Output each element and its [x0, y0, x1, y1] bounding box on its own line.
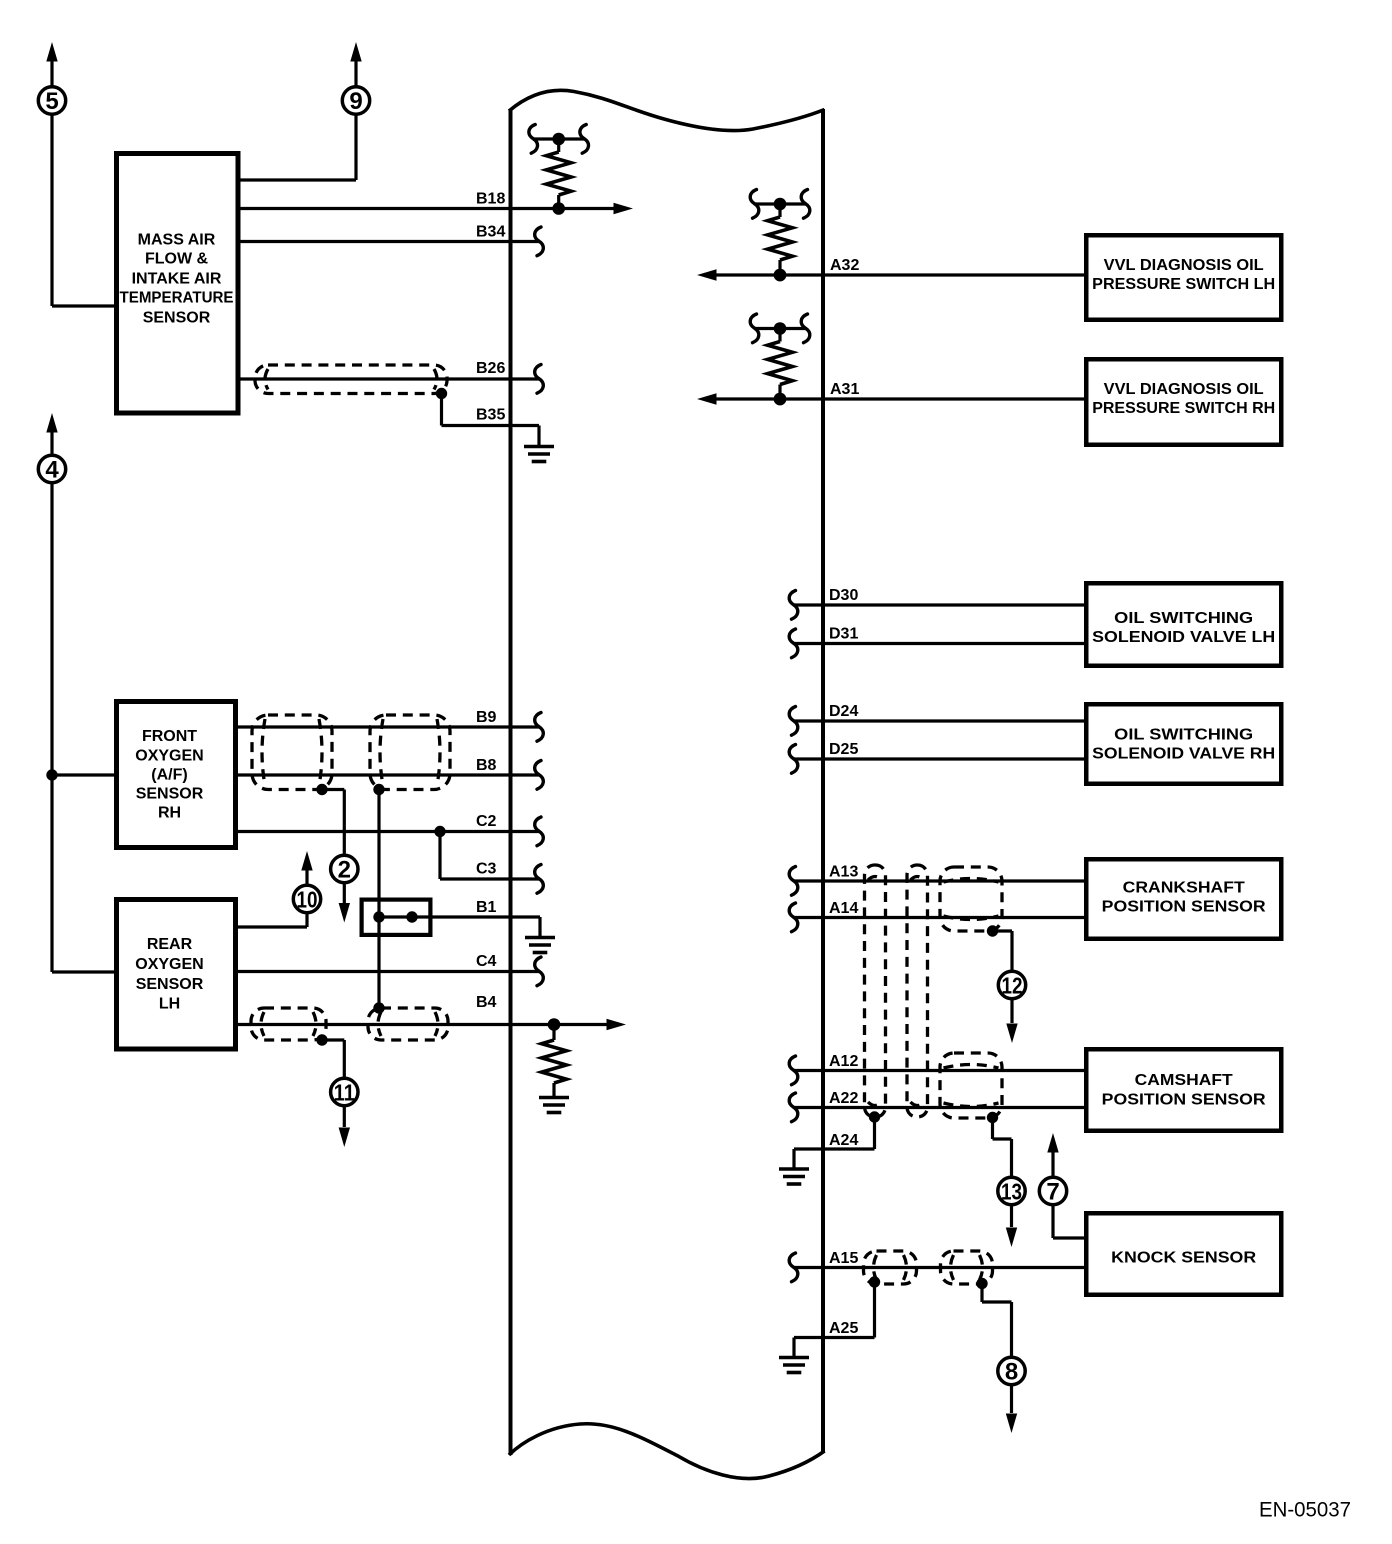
- shield drain junction dot right: [373, 784, 384, 795]
- connector page ref circle 9: [342, 87, 369, 115]
- shield drain junction dot on A15 shield 2: [976, 1278, 987, 1289]
- svg-text:B8: B8: [476, 757, 497, 774]
- tall shield 2 over A13/A14 and A12/A22: [907, 865, 928, 1117]
- svg-text:A14: A14: [829, 900, 858, 917]
- shield drain junction dot on A15 shield 1: [869, 1276, 880, 1287]
- svg-text:OIL SWITCHING: OIL SWITCHING: [1114, 727, 1253, 744]
- svg-text:POSITION SENSOR: POSITION SENSOR: [1102, 1092, 1266, 1109]
- shield around B26: [255, 365, 447, 394]
- shield around A12/A22 right: [940, 1053, 1002, 1118]
- svg-text:B18: B18: [476, 191, 505, 208]
- svg-text:FRONT: FRONT: [142, 728, 197, 745]
- crankshaft position sensor box: [1086, 859, 1281, 939]
- joint connector box on B1: [362, 900, 431, 935]
- wire C4: [236, 957, 543, 986]
- connector page ref circle 2: [331, 855, 358, 883]
- svg-text:D25: D25: [829, 741, 858, 758]
- arrow down from circle 13: [1006, 1206, 1017, 1248]
- svg-text:5: 5: [45, 88, 58, 115]
- svg-text:D31: D31: [829, 626, 858, 643]
- svg-text:A22: A22: [829, 1090, 858, 1107]
- ground inside ECM for B1: [525, 938, 555, 953]
- shield drain wire to circle 8: [982, 1284, 1012, 1357]
- svg-text:VVL DIAGNOSIS OIL: VVL DIAGNOSIS OIL: [1104, 257, 1264, 274]
- wire B9: [236, 713, 543, 742]
- svg-text:D30: D30: [829, 587, 858, 604]
- connector page ref circle 8: [998, 1357, 1025, 1385]
- svg-text:B34: B34: [476, 224, 505, 241]
- pull-up resistor inside ECM on B18: [529, 125, 589, 215]
- svg-text:B26: B26: [476, 360, 505, 377]
- svg-text:OIL SWITCHING: OIL SWITCHING: [1114, 610, 1253, 627]
- wire B1 to ground: [373, 911, 540, 937]
- svg-text:SOLENOID VALVE LH: SOLENOID VALVE LH: [1092, 629, 1275, 646]
- wire A24 to ground: [794, 1117, 875, 1169]
- connector page ref circle 5: [38, 87, 65, 115]
- svg-text:SENSOR: SENSOR: [136, 786, 204, 803]
- connector page ref circle 4: [38, 455, 65, 483]
- shield drain junction on B26 shield: [436, 388, 447, 399]
- svg-text:11: 11: [334, 1080, 355, 1106]
- wire D25: [789, 745, 1084, 774]
- svg-text:MASS AIR: MASS AIR: [138, 232, 216, 249]
- svg-text:KNOCK SENSOR: KNOCK SENSOR: [1111, 1250, 1256, 1267]
- wire C2: [236, 817, 543, 846]
- svg-text:9: 9: [349, 88, 362, 115]
- arrow down from circle 12: [1006, 1000, 1017, 1044]
- svg-text:2: 2: [338, 857, 351, 884]
- wire C3: [440, 832, 543, 894]
- svg-text:FLOW &: FLOW &: [145, 250, 209, 267]
- arrow up (to page ref 9): [350, 42, 361, 86]
- shield drain wire to circle 2: [322, 790, 344, 855]
- svg-text:A12: A12: [829, 1053, 858, 1070]
- svg-text:REAR: REAR: [147, 936, 193, 953]
- shield drain wire to circle 12: [993, 931, 1013, 971]
- wire D31: [789, 629, 1084, 658]
- svg-text:C3: C3: [476, 861, 497, 878]
- ECM block wavy top edge: [509, 90, 825, 130]
- shield 1 around B9/B8: [252, 715, 332, 790]
- svg-text:POSITION SENSOR: POSITION SENSOR: [1102, 899, 1266, 916]
- shield drain junction dot left: [316, 784, 327, 795]
- VVL diagnosis oil pressure switch RH box: [1086, 359, 1281, 445]
- connector page ref circle 7: [1039, 1177, 1066, 1205]
- svg-text:B1: B1: [476, 899, 497, 916]
- svg-text:PRESSURE SWITCH RH: PRESSURE SWITCH RH: [1092, 400, 1275, 417]
- ECM block wavy bottom edge: [509, 1424, 825, 1479]
- ground outside ECM for A24: [779, 1169, 809, 1184]
- ECM connector block left edge: [509, 109, 513, 1455]
- pull-up resistor inside ECM on A31: [750, 314, 810, 405]
- wire B8: [236, 761, 543, 790]
- shield 1 around A15: [864, 1251, 917, 1284]
- svg-text:PRESSURE SWITCH LH: PRESSURE SWITCH LH: [1092, 276, 1275, 293]
- wire A13: [789, 867, 1084, 896]
- shield drain junction dot on A12/A22 shield: [987, 1112, 998, 1123]
- oil switching solenoid valve LH box: [1086, 583, 1281, 666]
- svg-text:A32: A32: [830, 257, 859, 274]
- shield 2 around B4: [368, 1008, 448, 1040]
- wire from circle 4 down to oxygen sensors: [46, 484, 116, 972]
- svg-text:12: 12: [1002, 973, 1023, 999]
- wire from mass air flow sensor to circle 9: [236, 115, 356, 180]
- connector page ref circle 13: [998, 1177, 1025, 1204]
- svg-text:B9: B9: [476, 709, 497, 726]
- wire A31 with arrow: [697, 393, 1084, 406]
- svg-text:B35: B35: [476, 407, 505, 424]
- arrow up to knock sensor (page ref 7): [1047, 1133, 1058, 1177]
- shield 1 around B4: [251, 1008, 326, 1040]
- front oxygen (A/F) sensor RH box: [117, 702, 236, 848]
- svg-text:OXYGEN: OXYGEN: [135, 956, 203, 973]
- camshaft position sensor box: [1086, 1049, 1281, 1131]
- svg-text:C4: C4: [476, 953, 497, 970]
- ground outside ECM for A25: [779, 1358, 809, 1373]
- svg-text:10: 10: [297, 887, 318, 913]
- connector page ref circle 12: [998, 971, 1025, 998]
- svg-text:OXYGEN: OXYGEN: [135, 747, 203, 764]
- wire A15: [789, 1253, 1084, 1282]
- svg-text:SOLENOID VALVE RH: SOLENOID VALVE RH: [1092, 746, 1275, 763]
- VVL diagnosis oil pressure switch LH box: [1086, 235, 1281, 320]
- svg-text:A24: A24: [829, 1132, 858, 1149]
- svg-text:EN-05037: EN-05037: [1259, 1498, 1351, 1522]
- ground under B4 resistor: [539, 1098, 569, 1113]
- wire B4: [236, 1018, 626, 1031]
- shield 2 around B9/B8: [370, 715, 450, 790]
- arrow down from circle 11: [339, 1107, 350, 1148]
- shield junction dot on B4 shield 2 top: [373, 1002, 384, 1013]
- wire from circle 7 to knock sensor box: [1053, 1206, 1084, 1239]
- svg-text:LH: LH: [159, 996, 180, 1013]
- knock sensor box: [1086, 1213, 1281, 1295]
- wire A14: [789, 903, 1084, 932]
- svg-text:(A/F): (A/F): [151, 766, 187, 783]
- connector page ref circle 10: [293, 885, 320, 912]
- wire A22: [789, 1093, 1084, 1122]
- wire B18: [236, 203, 633, 214]
- svg-text:13: 13: [1001, 1179, 1022, 1205]
- arrow up (to page ref 4): [46, 413, 57, 455]
- shield around A13/A14 right: [940, 867, 1002, 931]
- svg-text:CAMSHAFT: CAMSHAFT: [1135, 1072, 1233, 1089]
- shield drain junction dot on tall shield at A22: [869, 1111, 880, 1122]
- connector page ref circle 11: [331, 1078, 358, 1105]
- wire A32 with arrow: [697, 269, 1084, 282]
- svg-text:TEMPERATURE: TEMPERATURE: [120, 289, 234, 306]
- wire D24: [789, 707, 1084, 736]
- shield drain wire to circle 13: [993, 1118, 1012, 1177]
- rear oxygen sensor LH box: [117, 900, 236, 1050]
- shield drain wire to circle 11: [322, 1040, 344, 1078]
- svg-text:B4: B4: [476, 994, 497, 1011]
- oil switching solenoid valve RH box: [1086, 704, 1281, 784]
- svg-text:C2: C2: [476, 813, 497, 830]
- arrow up (to page ref 5): [46, 42, 57, 86]
- wire B34: [236, 227, 543, 256]
- pull-down resistor inside ECM on B4: [542, 1025, 567, 1098]
- wire from rear oxygen sensor to circle 10: [236, 914, 307, 928]
- arrow down from circle 2: [339, 884, 350, 923]
- svg-text:D24: D24: [829, 703, 858, 720]
- svg-text:A13: A13: [829, 864, 858, 881]
- arrow down from circle 8: [1006, 1386, 1017, 1434]
- tall shield 1 over A13/A14 and A12/A22: [865, 865, 886, 1117]
- svg-text:SENSOR: SENSOR: [136, 976, 204, 993]
- svg-text:7: 7: [1046, 1179, 1059, 1206]
- svg-text:8: 8: [1005, 1359, 1018, 1386]
- mass air flow &amp; intake air temperature sensor box: [117, 154, 239, 414]
- svg-text:SENSOR: SENSOR: [143, 309, 211, 326]
- svg-text:INTAKE AIR: INTAKE AIR: [132, 271, 222, 288]
- svg-text:A25: A25: [829, 1320, 858, 1337]
- shield drain junction dot on B4 shield 1: [316, 1034, 327, 1045]
- long shield drain wire down to B4 shield: [377, 790, 380, 1009]
- wire A12: [789, 1056, 1084, 1085]
- svg-text:VVL DIAGNOSIS OIL: VVL DIAGNOSIS OIL: [1104, 381, 1264, 398]
- wire B35 to ground: [442, 394, 540, 447]
- ECM connector block right edge: [821, 109, 825, 1452]
- shield drain junction dot on A13/A14 shield: [987, 925, 998, 936]
- svg-text:4: 4: [45, 457, 59, 484]
- pull-up resistor inside ECM on A32: [750, 190, 810, 282]
- wire A25 to ground: [794, 1282, 875, 1357]
- svg-text:CRANKSHAFT: CRANKSHAFT: [1123, 880, 1245, 897]
- arrow up from circle 10: [301, 851, 312, 885]
- wire D30: [789, 591, 1084, 620]
- svg-text:RH: RH: [158, 805, 181, 822]
- svg-text:A15: A15: [829, 1250, 858, 1267]
- wire B26: [236, 365, 543, 394]
- shield 2 around A15: [941, 1251, 993, 1284]
- ground inside ECM for B35: [524, 447, 554, 462]
- wire from circle 5 to mass air flow sensor: [52, 115, 116, 306]
- svg-text:A31: A31: [830, 381, 859, 398]
